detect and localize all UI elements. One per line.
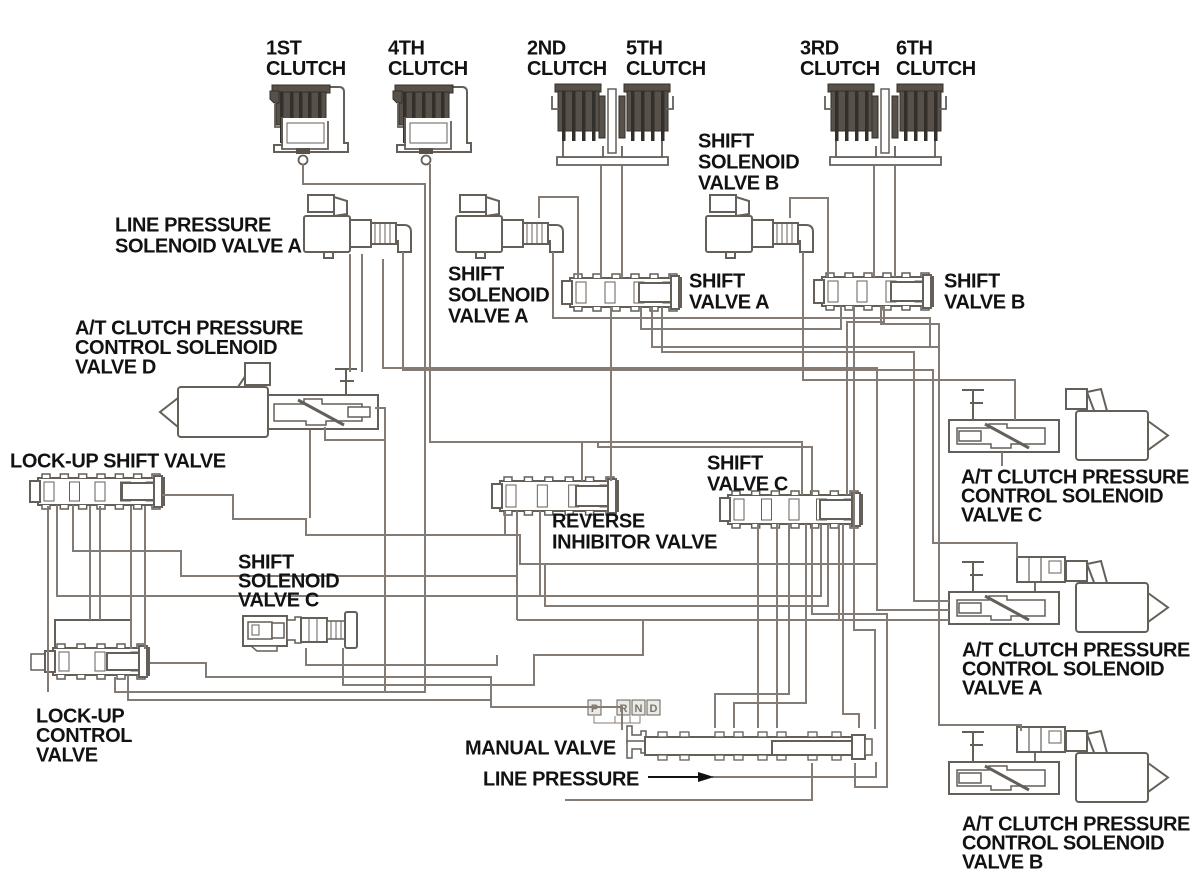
label SHIFT VALVE C bbox=[707, 453, 788, 496]
wire lock-up shift valve staircase to CPC valve A bbox=[162, 495, 949, 610]
svg-text:LINE PRESSURE: LINE PRESSURE bbox=[115, 215, 271, 237]
label SHIFT VALVE A bbox=[689, 271, 769, 314]
A/T clutch pressure control solenoid valve B (right) bbox=[949, 727, 1168, 802]
svg-text:SHIFT: SHIFT bbox=[944, 271, 1000, 293]
wire 1st clutch to lock-up control valve bbox=[115, 164, 425, 692]
label 2ND CLUTCH bbox=[527, 38, 607, 81]
wire solenoid A over to shift valve A bbox=[539, 197, 578, 278]
wire LPA to CPC valve D spring 1 bbox=[349, 254, 351, 372]
clutch pair 3RD/6TH bbox=[825, 84, 946, 165]
wire lock-up control valve to manual valve bbox=[150, 663, 622, 730]
wire solenoid C pipe 2 bbox=[343, 620, 643, 685]
label LINE PRESSURE bbox=[483, 769, 639, 791]
wire line pressure feed bbox=[712, 762, 876, 777]
label 6TH CLUTCH bbox=[896, 38, 976, 81]
wire shift valve C to manual valve 2 bbox=[776, 524, 778, 728]
svg-text:P: P bbox=[591, 703, 598, 715]
svg-text:INHIBITOR VALVE: INHIBITOR VALVE bbox=[552, 532, 717, 554]
wire manual valve bottom left bbox=[565, 763, 812, 800]
wire shift valve B bottom to shift valve C bbox=[847, 306, 884, 495]
lock-up shift valve bbox=[30, 474, 164, 509]
svg-text:VALVE C: VALVE C bbox=[961, 505, 1042, 527]
wire shift solenoid valve A output bbox=[553, 252, 930, 347]
wire reverse inhibitor drop 3 bbox=[539, 511, 541, 596]
svg-text:SOLENOID: SOLENOID bbox=[448, 285, 549, 307]
line pressure solenoid valve A bbox=[304, 195, 411, 258]
svg-text:N: N bbox=[635, 703, 643, 715]
svg-text:3RD: 3RD bbox=[800, 38, 839, 60]
svg-text:LOCK-UP SHIFT VALVE: LOCK-UP SHIFT VALVE bbox=[10, 451, 226, 473]
label MANUAL VALVE bbox=[465, 738, 616, 760]
wire shift valve A to CPC valve A bbox=[662, 307, 949, 601]
label SHIFT SOLENOID VALVE B bbox=[698, 131, 799, 195]
A/T clutch pressure control solenoid valve D bbox=[160, 363, 378, 437]
A/T clutch pressure control solenoid valve A (right) bbox=[949, 557, 1168, 632]
wire reverse inhibitor left drop 1 bbox=[504, 511, 506, 535]
wire lock-up shift valve to control valve 4 bbox=[144, 506, 146, 649]
wire shift valve C under manual valve bbox=[812, 524, 887, 787]
wire line pressure solenoid lower port bbox=[383, 259, 877, 564]
clutch pair 2ND/5TH bbox=[552, 84, 673, 165]
wire CPC valve D output down bbox=[375, 408, 385, 692]
svg-text:CLUTCH: CLUTCH bbox=[896, 58, 976, 80]
label SHIFT SOLENOID VALVE C bbox=[238, 552, 339, 612]
wire shift valve C to manual valve 4 bbox=[734, 524, 806, 728]
label 4TH CLUTCH bbox=[388, 38, 468, 81]
svg-text:SHIFT: SHIFT bbox=[689, 271, 745, 293]
label A/T CPC VALVE B bbox=[962, 814, 1190, 874]
wire solenoid C pipe 1 bbox=[306, 648, 497, 665]
svg-text:CLUTCH: CLUTCH bbox=[527, 58, 607, 80]
wire shift valve A under-run bbox=[641, 306, 841, 329]
wire lock-up shift valve to shift valve C bbox=[57, 505, 821, 596]
label LOCK-UP SHIFT VALVE bbox=[10, 451, 226, 473]
label LINE PRESSURE SOLENOID VALVE A bbox=[115, 215, 302, 258]
svg-text:6TH: 6TH bbox=[896, 38, 933, 60]
wire over shift valve C second feed bbox=[598, 442, 812, 495]
wire lock-up control valve lower staircase bbox=[128, 675, 491, 707]
shift valve B bbox=[814, 273, 933, 310]
clutch 1ST bbox=[270, 85, 348, 165]
label 5TH CLUTCH bbox=[626, 38, 706, 81]
wire CPC valve D drop 1 bbox=[309, 430, 311, 518]
clutch 4TH bbox=[393, 85, 471, 165]
label SHIFT SOLENOID VALVE A bbox=[448, 264, 549, 328]
wire shift valve A to junction bbox=[652, 307, 939, 347]
label A/T CPC VALVE A bbox=[962, 640, 1190, 700]
svg-text:VALVE C: VALVE C bbox=[238, 590, 319, 612]
svg-text:R: R bbox=[620, 703, 628, 715]
wire CPC valve D output right bbox=[325, 427, 385, 440]
label REVERSE INHIBITOR VALVE bbox=[552, 511, 717, 554]
label LOCK-UP CONTROL VALVE bbox=[36, 706, 132, 767]
svg-text:SHIFT: SHIFT bbox=[448, 264, 504, 286]
wire shift solenoid valve B output to CPC valve C bbox=[803, 252, 1015, 420]
svg-text:VALVE: VALVE bbox=[36, 745, 98, 767]
svg-text:SHIFT: SHIFT bbox=[698, 131, 754, 153]
wire 2nd clutch to shift valve A bbox=[600, 166, 602, 278]
label A/T CPC VALVE C bbox=[961, 467, 1189, 527]
shift solenoid valve A bbox=[456, 195, 563, 258]
svg-text:LINE PRESSURE: LINE PRESSURE bbox=[483, 769, 639, 791]
svg-text:CLUTCH: CLUTCH bbox=[266, 58, 346, 80]
wire reverse inhibitor left drop 2 bbox=[516, 511, 518, 620]
manual valve bbox=[627, 726, 872, 760]
svg-text:VALVE A: VALVE A bbox=[962, 678, 1042, 700]
wire lock-up shift valve to control valve 1 bbox=[89, 506, 91, 620]
wire long run to CPC valve A bbox=[517, 619, 949, 621]
A/T clutch pressure control solenoid valve C (right) bbox=[949, 389, 1168, 460]
label A/T CPC VALVE D bbox=[75, 318, 303, 379]
svg-text:D: D bbox=[650, 703, 658, 715]
svg-text:CLUTCH: CLUTCH bbox=[388, 58, 468, 80]
label 3RD CLUTCH bbox=[800, 38, 880, 81]
svg-text:CLUTCH: CLUTCH bbox=[626, 58, 706, 80]
svg-text:VALVE B: VALVE B bbox=[944, 292, 1025, 314]
svg-text:CLUTCH: CLUTCH bbox=[800, 58, 880, 80]
shift solenoid valve C bbox=[243, 612, 357, 651]
svg-text:2ND: 2ND bbox=[527, 38, 566, 60]
shift valve C bbox=[720, 491, 862, 528]
reverse inhibitor valve bbox=[492, 477, 618, 515]
wire CPC valve C bottom stub bbox=[1001, 452, 1003, 466]
wire shift valve C to manual valve 3 bbox=[715, 524, 789, 728]
svg-text:5TH: 5TH bbox=[626, 38, 663, 60]
svg-text:MANUAL VALVE: MANUAL VALVE bbox=[465, 738, 616, 760]
lock-up control valve bbox=[31, 620, 149, 679]
wire 3rd clutch to shift valve B bbox=[873, 166, 875, 277]
wire shift valve A port down to reverse inhibitor bbox=[610, 307, 612, 481]
wire shift valve C to manual valve 1 bbox=[757, 524, 759, 728]
wire lock-up shift valve left drop bbox=[47, 506, 49, 692]
wire lock-up shift valve staircase lower bbox=[73, 505, 517, 576]
svg-text:REVERSE: REVERSE bbox=[552, 511, 645, 533]
wire reverse inhibitor valve top bbox=[581, 442, 583, 481]
wire lock-up shift valve to control valve 3 bbox=[130, 506, 132, 649]
svg-text:SOLENOID VALVE A: SOLENOID VALVE A bbox=[115, 236, 302, 258]
wire 6th clutch to shift valve B bbox=[894, 166, 896, 277]
wire line pressure solenoid to CPC valve A top box bbox=[403, 252, 1017, 558]
svg-text:SHIFT: SHIFT bbox=[707, 453, 763, 475]
wire shift valve B long drop bbox=[854, 306, 875, 729]
svg-text:VALVE C: VALVE C bbox=[707, 474, 788, 496]
label SHIFT VALVE B bbox=[944, 271, 1025, 314]
wire lock-up shift valve to control valve 2 bbox=[99, 506, 101, 620]
wire 5th clutch to shift valve A bbox=[621, 166, 623, 278]
wire shift valve C staircase left bbox=[545, 524, 828, 606]
svg-text:VALVE B: VALVE B bbox=[962, 852, 1043, 874]
svg-text:VALVE A: VALVE A bbox=[448, 306, 528, 328]
wire shift valve B to CPC valve B top box bbox=[881, 306, 1021, 731]
PRND selector positions bbox=[588, 700, 660, 723]
wire LPA to CPC valve D spring 2 bbox=[361, 254, 363, 372]
shift solenoid valve B bbox=[706, 195, 813, 258]
svg-text:VALVE A: VALVE A bbox=[689, 292, 769, 314]
svg-text:VALVE B: VALVE B bbox=[698, 173, 779, 195]
line pressure arrow bbox=[648, 772, 714, 782]
svg-text:1ST: 1ST bbox=[266, 38, 302, 60]
label 1ST CLUTCH bbox=[266, 38, 346, 81]
wire solenoid B over to shift valve B bbox=[790, 198, 828, 277]
svg-text:SOLENOID: SOLENOID bbox=[698, 152, 799, 174]
wire shift valve C to manual valve right bbox=[843, 524, 859, 728]
svg-text:4TH: 4TH bbox=[388, 38, 425, 60]
shift valve A bbox=[562, 274, 681, 311]
wire 4th clutch to shift valve C bbox=[430, 164, 802, 495]
wire shift valve C to CPC valve A lower bbox=[838, 524, 840, 620]
svg-text:VALVE D: VALVE D bbox=[75, 357, 156, 379]
